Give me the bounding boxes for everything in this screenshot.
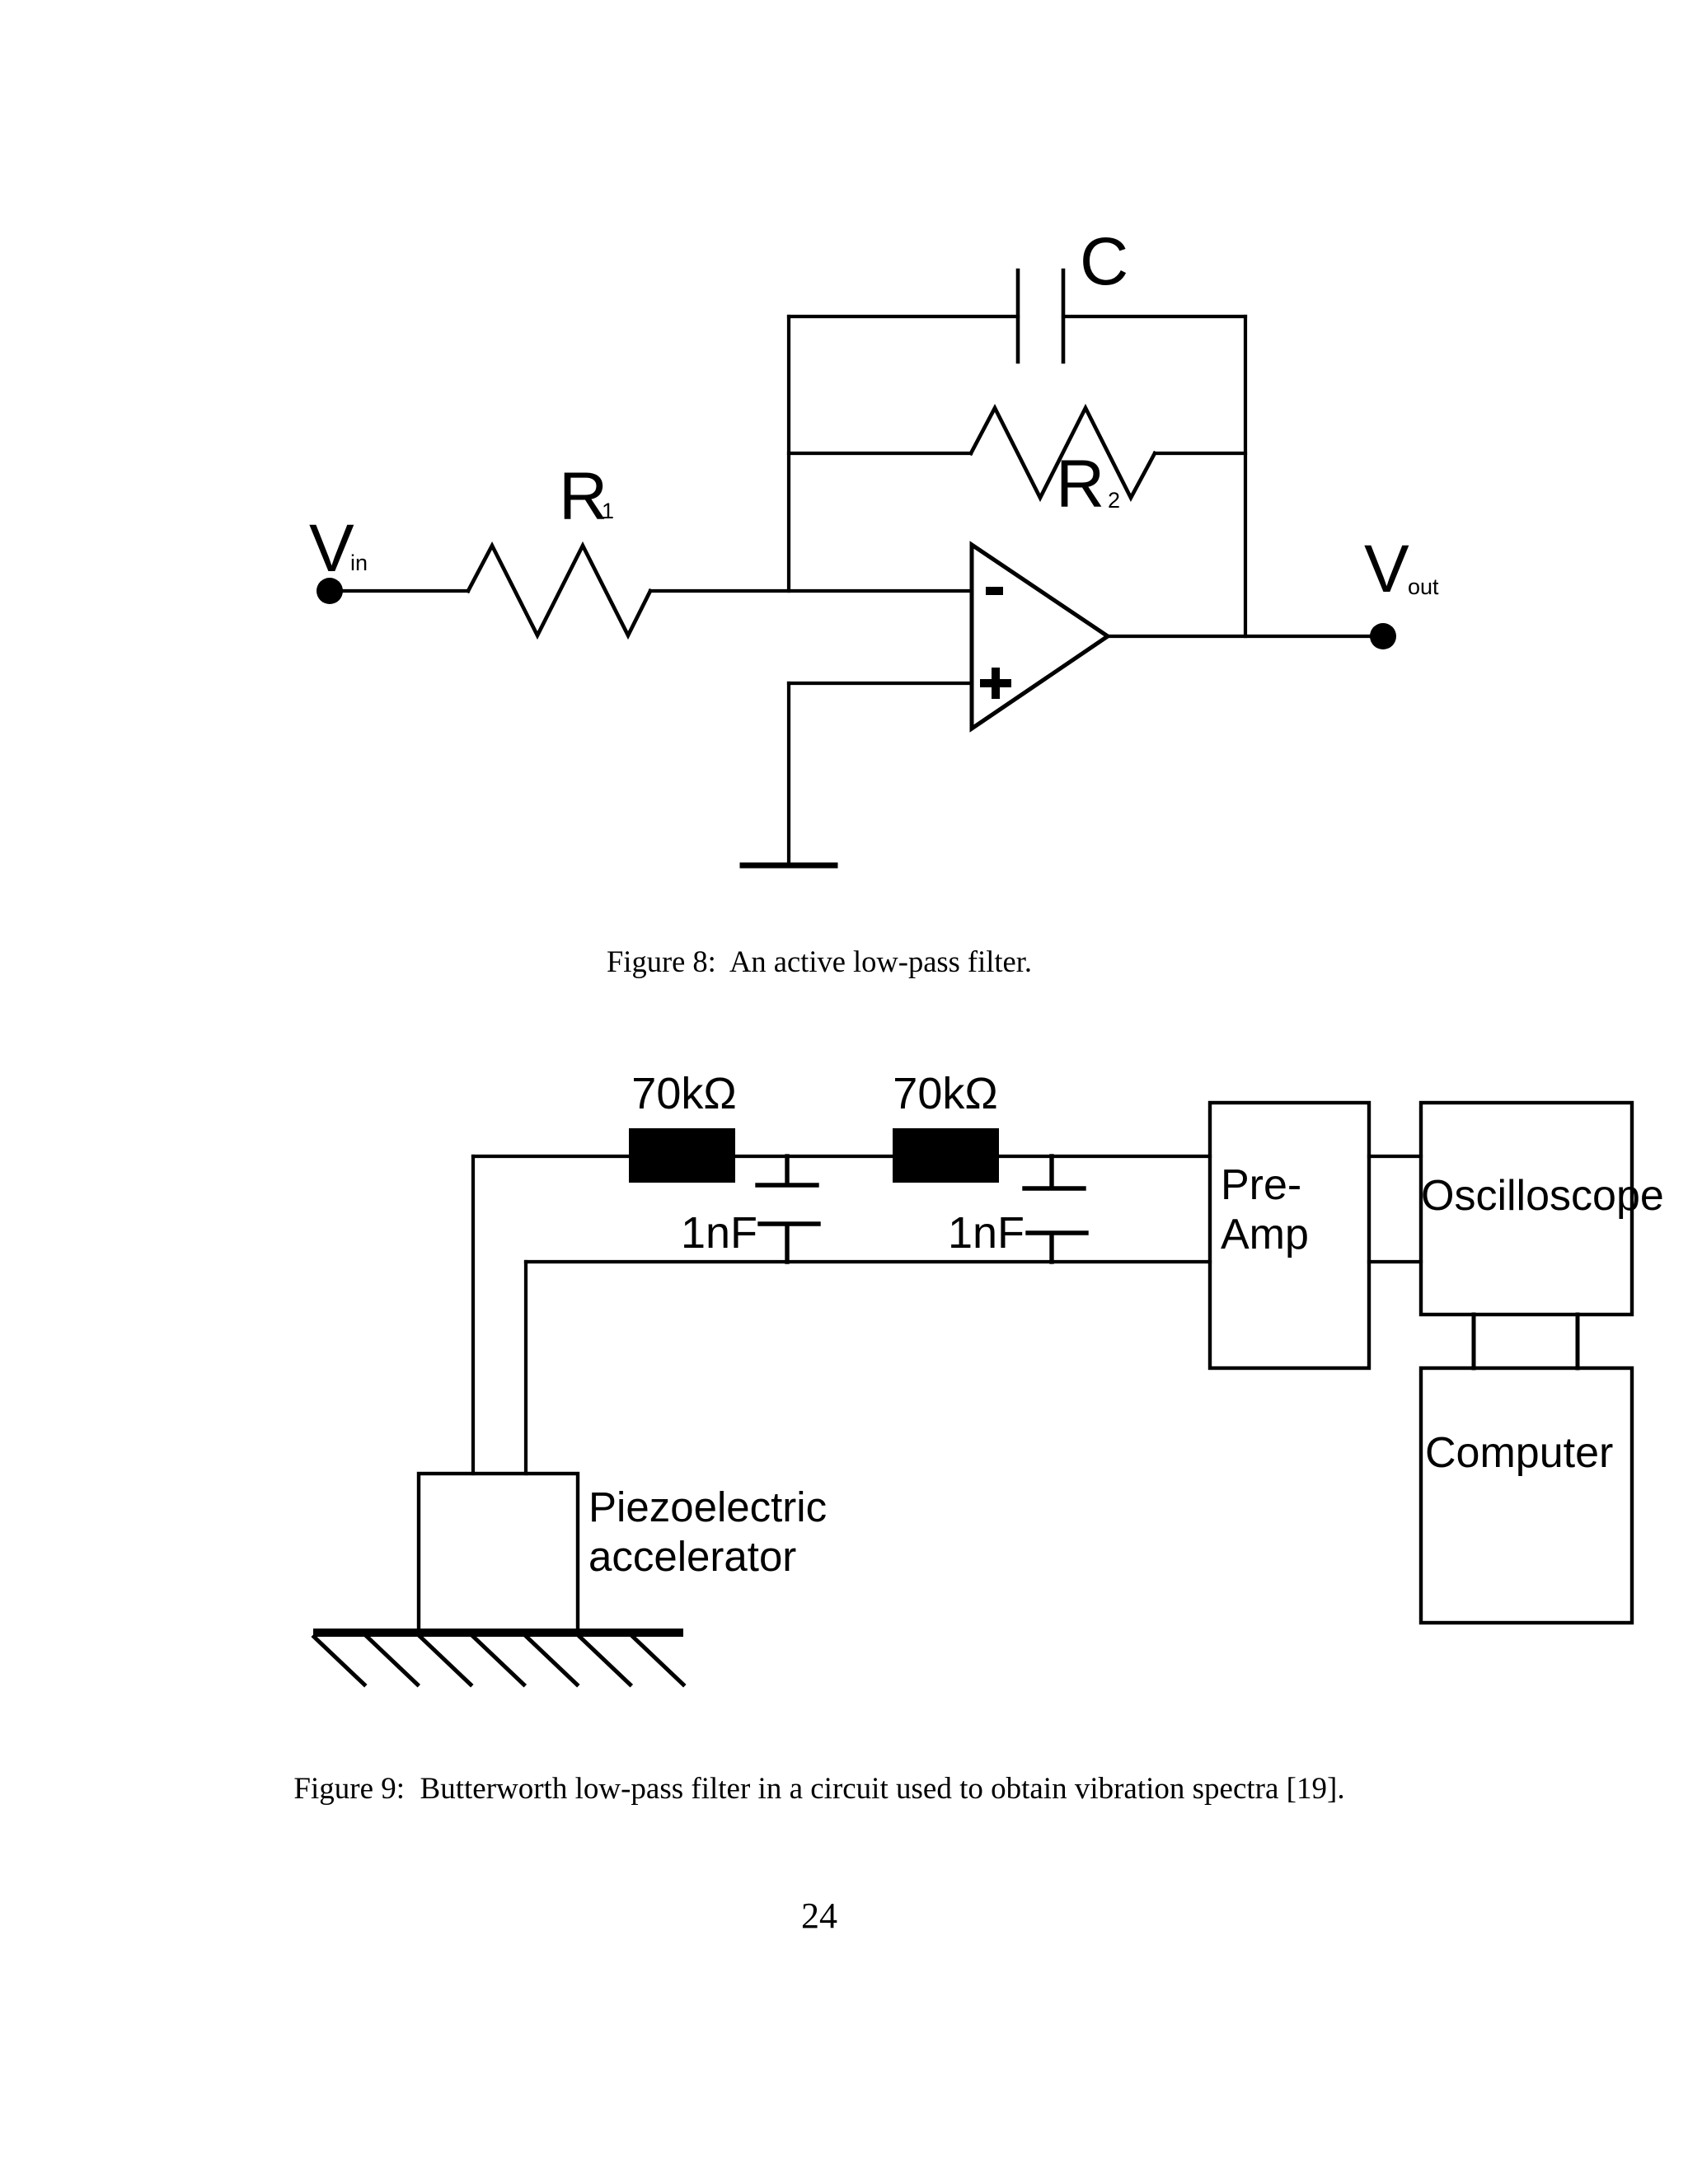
capacitor C: [1018, 270, 1063, 362]
wire Pre-Amp to Oscilloscope upper: [1369, 1155, 1421, 1158]
wire R2 branch right: [1155, 452, 1245, 455]
wire bottom rail (sensor return to Pre-Amp): [526, 1260, 1210, 1263]
Oscilloscope box: [1421, 1103, 1632, 1315]
wire Oscilloscope to Computer left: [1472, 1315, 1476, 1368]
svg-text:Piezoelectric: Piezoelectric: [588, 1483, 827, 1530]
wire feedback top rail left: [789, 315, 1018, 318]
ground plane: [313, 1629, 683, 1637]
wire junction node to feedback (left vertical): [787, 316, 790, 591]
op-amp inverting pin mark (minus): [986, 587, 1003, 595]
svg-text:1nF: 1nF: [948, 1208, 1025, 1258]
resistor R2: [971, 408, 1155, 498]
wire left vertical (top rail to accelerator): [471, 1156, 475, 1474]
wire feedback top rail right: [1063, 315, 1245, 318]
svg-text:accelerator: accelerator: [588, 1533, 796, 1580]
wire op-amp output to Vout: [1108, 635, 1371, 638]
wire non-inverting input: [789, 682, 972, 685]
svg-text:1: 1: [602, 499, 614, 523]
node Vout (output terminal dot): [1370, 623, 1396, 649]
svg-text:C: C: [1080, 224, 1128, 299]
wire feedback right vertical: [1244, 316, 1247, 636]
resistor 70k (first, filled block): [629, 1128, 735, 1183]
wire non-inverting input to ground: [787, 683, 790, 863]
wire Oscilloscope to Computer right: [1576, 1315, 1580, 1368]
capacitor C1 1nF (first shunt cap): [757, 1156, 818, 1262]
svg-text:Amp: Amp: [1221, 1211, 1309, 1258]
resistor 70k (second, filled block): [893, 1128, 999, 1183]
op-amp U1: [972, 545, 1108, 729]
wire top rail (sensor to Pre-Amp): [473, 1155, 1210, 1158]
node Vin (input terminal dot): [316, 578, 343, 604]
wire Vin to R1: [330, 589, 468, 593]
svg-text:1nF: 1nF: [681, 1208, 757, 1258]
ground: [743, 863, 835, 869]
svg-text:Pre-: Pre-: [1221, 1161, 1301, 1209]
svg-text:out: out: [1408, 574, 1439, 599]
Piezoelectric accelerator box: [419, 1474, 578, 1632]
svg-text:R: R: [1056, 447, 1104, 522]
svg-text:2: 2: [1108, 488, 1120, 513]
wire R2 branch left: [789, 452, 971, 455]
resistor R1: [468, 546, 650, 635]
Computer box: [1421, 1368, 1632, 1623]
svg-text:70kΩ: 70kΩ: [631, 1069, 736, 1118]
wire Pre-Amp to Oscilloscope lower: [1369, 1260, 1421, 1263]
wire R1 to op-amp inverting input: [650, 589, 972, 593]
svg-text:V: V: [1364, 532, 1409, 607]
svg-text:Computer: Computer: [1425, 1429, 1613, 1477]
svg-text:Oscilloscope: Oscilloscope: [1421, 1172, 1664, 1220]
wire inner vertical (bottom rail to accelerator): [524, 1262, 527, 1474]
svg-text:V: V: [309, 511, 354, 586]
svg-text:Figure 9: Butterworth low-pas: Figure 9: Butterworth low-pass filter in…: [293, 1772, 1344, 1806]
svg-text:70kΩ: 70kΩ: [893, 1069, 997, 1118]
svg-text:24: 24: [801, 1896, 837, 1936]
Pre-Amp box: [1210, 1103, 1369, 1368]
svg-text:in: in: [350, 551, 368, 575]
svg-text:R: R: [559, 459, 607, 534]
ground hatching: [314, 1637, 683, 1685]
svg-text:Figure 8: An active low-pass: Figure 8: An active low-pass filter.: [607, 944, 1032, 978]
op-amp non-inverting pin mark (plus): [980, 668, 1011, 699]
capacitor C2 1nF (second shunt cap): [1025, 1156, 1086, 1262]
